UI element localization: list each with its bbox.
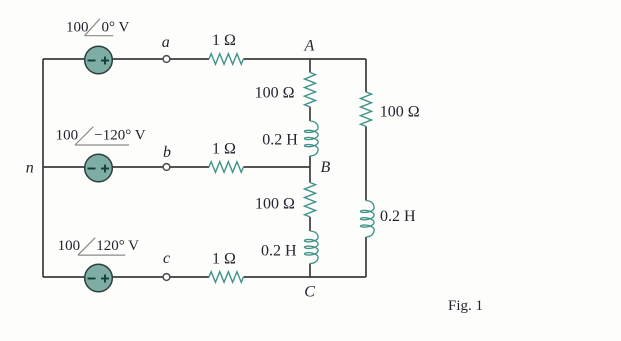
wire: phase a top horizontal segments bbox=[43, 58, 366, 60]
svg-text:0.2 H: 0.2 H bbox=[262, 132, 298, 149]
svg-text:120° V: 120° V bbox=[96, 238, 139, 254]
terminal node b bbox=[163, 164, 170, 171]
wire: left vertical bus (node n) bbox=[42, 59, 44, 277]
wire: right vertical branch segments bbox=[365, 59, 367, 277]
resistor 1 ohm (phase b) bbox=[209, 162, 243, 173]
svg-text:1 Ω: 1 Ω bbox=[212, 251, 236, 268]
voltage source Van 100/0 V bbox=[85, 46, 113, 74]
svg-text:c: c bbox=[163, 250, 170, 267]
svg-text:0° V: 0° V bbox=[102, 20, 130, 36]
label 100/0 V source value bbox=[66, 19, 129, 36]
svg-text:b: b bbox=[163, 144, 171, 161]
wire: middle vertical branch segments A-B-C bbox=[309, 59, 311, 277]
svg-text:C: C bbox=[304, 283, 315, 300]
svg-text:0.2 H: 0.2 H bbox=[261, 242, 297, 259]
voltage source Vbn 100/-120 V bbox=[85, 154, 113, 182]
resistor 1 ohm (phase c) bbox=[209, 272, 243, 283]
inductor 0.2 H (branch A-B) bbox=[305, 121, 319, 156]
label 100/120 V source value bbox=[58, 238, 140, 255]
svg-text:100 Ω: 100 Ω bbox=[255, 85, 295, 102]
resistor 100 ohm (branch B-C) bbox=[305, 183, 316, 217]
svg-text:n: n bbox=[26, 159, 34, 176]
inductor 0.2 H (branch B-C) bbox=[305, 231, 319, 264]
svg-text:B: B bbox=[321, 159, 331, 176]
svg-text:100: 100 bbox=[58, 238, 81, 254]
resistor 100 ohm (right branch) bbox=[361, 92, 372, 126]
terminal node c bbox=[163, 274, 170, 281]
terminal node a bbox=[163, 56, 170, 63]
svg-text:1 Ω: 1 Ω bbox=[212, 32, 236, 49]
svg-text:100 Ω: 100 Ω bbox=[380, 104, 420, 121]
wire: phase c bottom horizontal segments bbox=[43, 276, 366, 278]
svg-text:Fig. 1: Fig. 1 bbox=[448, 298, 483, 314]
voltage source Vcn 100/120 V bbox=[85, 264, 113, 292]
svg-text:A: A bbox=[304, 38, 315, 55]
svg-text:a: a bbox=[162, 34, 170, 51]
resistor 100 ohm (branch A-B) bbox=[305, 73, 316, 107]
svg-text:100 Ω: 100 Ω bbox=[255, 196, 295, 213]
resistor 1 ohm (phase a) bbox=[209, 54, 243, 65]
inductor 0.2 H (right branch) bbox=[361, 201, 375, 238]
wire: phase b middle horizontal segments bbox=[43, 166, 310, 168]
label 100/-120 V source value bbox=[56, 127, 146, 145]
svg-text:1 Ω: 1 Ω bbox=[212, 141, 236, 158]
svg-text:−120° V: −120° V bbox=[94, 128, 145, 144]
svg-text:100: 100 bbox=[56, 128, 79, 144]
svg-text:100: 100 bbox=[66, 20, 89, 36]
svg-text:0.2 H: 0.2 H bbox=[380, 208, 416, 225]
